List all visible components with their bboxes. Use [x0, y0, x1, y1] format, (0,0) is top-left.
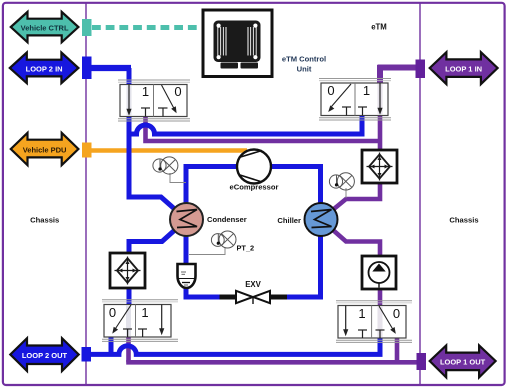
svg-text:LOOP 1 IN: LOOP 1 IN	[445, 64, 482, 73]
svg-text:LOOP 2 OUT: LOOP 2 OUT	[22, 351, 68, 360]
svg-text:eTM Control: eTM Control	[282, 55, 326, 64]
svg-text:LOOP 1 OUT: LOOP 1 OUT	[440, 357, 486, 366]
svg-text:Vehicle CTRL: Vehicle CTRL	[21, 23, 69, 32]
svg-text:1: 1	[358, 306, 365, 321]
svg-text:PT_2: PT_2	[237, 244, 255, 253]
svg-text:0: 0	[393, 306, 400, 321]
svg-text:Vehicle PDU: Vehicle PDU	[23, 145, 67, 154]
svg-text:Unit: Unit	[297, 65, 312, 74]
svg-text:EXV: EXV	[245, 280, 261, 289]
svg-text:0: 0	[109, 305, 116, 320]
svg-text:0: 0	[174, 84, 181, 99]
svg-text:eTM: eTM	[371, 23, 387, 32]
svg-text:1: 1	[142, 84, 149, 99]
svg-text:Chassis: Chassis	[30, 216, 59, 225]
svg-text:eCompressor: eCompressor	[230, 183, 279, 192]
svg-text:Chiller: Chiller	[277, 216, 301, 225]
svg-text:0: 0	[327, 83, 334, 98]
svg-text:1: 1	[363, 83, 370, 98]
svg-text:Chassis: Chassis	[449, 216, 478, 225]
svg-text:1: 1	[141, 305, 148, 320]
svg-text:LOOP 2 IN: LOOP 2 IN	[26, 64, 63, 73]
svg-text:Condenser: Condenser	[207, 215, 247, 224]
